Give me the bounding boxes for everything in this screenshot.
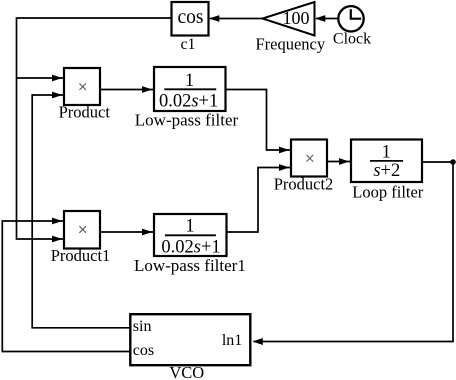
- block Low-pass filter: [154, 67, 226, 111]
- arrowhead Low-pass filter1 input: [142, 229, 152, 236]
- wire: Low-pass filter output to Product2 top input: [226, 90, 291, 151]
- svg-text:Loop filter: Loop filter: [352, 183, 424, 202]
- arrowhead Frequency input: [315, 15, 325, 22]
- svg-text:Low-pass filter1: Low-pass filter1: [134, 256, 246, 275]
- svg-text:0.02s+1: 0.02s+1: [159, 91, 218, 111]
- block Product2: [291, 140, 327, 177]
- svg-text:cos: cos: [133, 342, 154, 359]
- svg-text:0.02s+1: 0.02s+1: [161, 238, 220, 258]
- arrowhead Low-pass filter input: [142, 86, 152, 93]
- svg-text:s+2: s+2: [373, 161, 400, 181]
- svg-text:sin: sin: [133, 318, 152, 335]
- svg-text:1: 1: [185, 216, 194, 236]
- arrowhead Product1 bottom input: [52, 236, 62, 243]
- arrowhead cos block input: [209, 15, 219, 22]
- svg-text:cos: cos: [178, 7, 204, 28]
- wire: branch into Product top input: [17, 77, 64, 79]
- svg-text:1: 1: [185, 71, 194, 91]
- wire: Product output to Low-pass filter: [100, 89, 153, 91]
- svg-text:VCO: VCO: [169, 363, 204, 380]
- arrowhead Loop filter input: [339, 158, 349, 165]
- block Product: [64, 68, 100, 105]
- wire: Low-pass filter1 output to Product2 bottom input: [227, 168, 291, 233]
- wire: Clock output to Frequency gain: [316, 18, 339, 20]
- svg-text:Low-pass filter: Low-pass filter: [135, 111, 239, 130]
- svg-text:ln1: ln1: [222, 332, 242, 349]
- svg-text:Clock: Clock: [333, 30, 371, 47]
- arrowhead VCO ln1 input: [253, 338, 263, 345]
- wire: Product2 output to Loop filter: [327, 161, 350, 163]
- clock source: [338, 6, 363, 31]
- block Product1: [64, 211, 100, 249]
- block Low-pass filter1: [154, 214, 227, 256]
- svg-text:Product1: Product1: [51, 246, 111, 265]
- wire: Loop filter output to VCO ln1 input: [254, 162, 454, 342]
- wire: VCO sin output to Product bottom input: [32, 95, 130, 328]
- svg-text:100: 100: [283, 8, 310, 28]
- svg-text:Frequency: Frequency: [255, 34, 325, 53]
- block VCO: [130, 314, 250, 365]
- arrowhead Product2 top input: [279, 147, 289, 154]
- junction dot: [450, 159, 456, 165]
- wire: Frequency gain output to cos block: [210, 18, 263, 20]
- arrowhead Product bottom input: [52, 92, 62, 99]
- block cos (c1): [172, 2, 209, 36]
- wire: VCO cos output to Product1 top input: [2, 221, 130, 352]
- arrowhead Product top input: [52, 75, 62, 82]
- svg-text:c1: c1: [180, 36, 195, 53]
- arrowhead Product1 top input: [52, 218, 62, 225]
- gain triangle Frequency (100): [263, 2, 315, 36]
- svg-text:1: 1: [382, 143, 391, 163]
- block Loop filter: [351, 140, 422, 183]
- svg-text:Product: Product: [59, 103, 111, 122]
- arrowhead Product2 bottom input: [279, 164, 289, 171]
- wire: Product1 output to Low-pass filter1: [100, 231, 153, 233]
- wire: c1 output trunk (left vertical): [17, 18, 172, 239]
- svg-text:Product2: Product2: [274, 174, 334, 193]
